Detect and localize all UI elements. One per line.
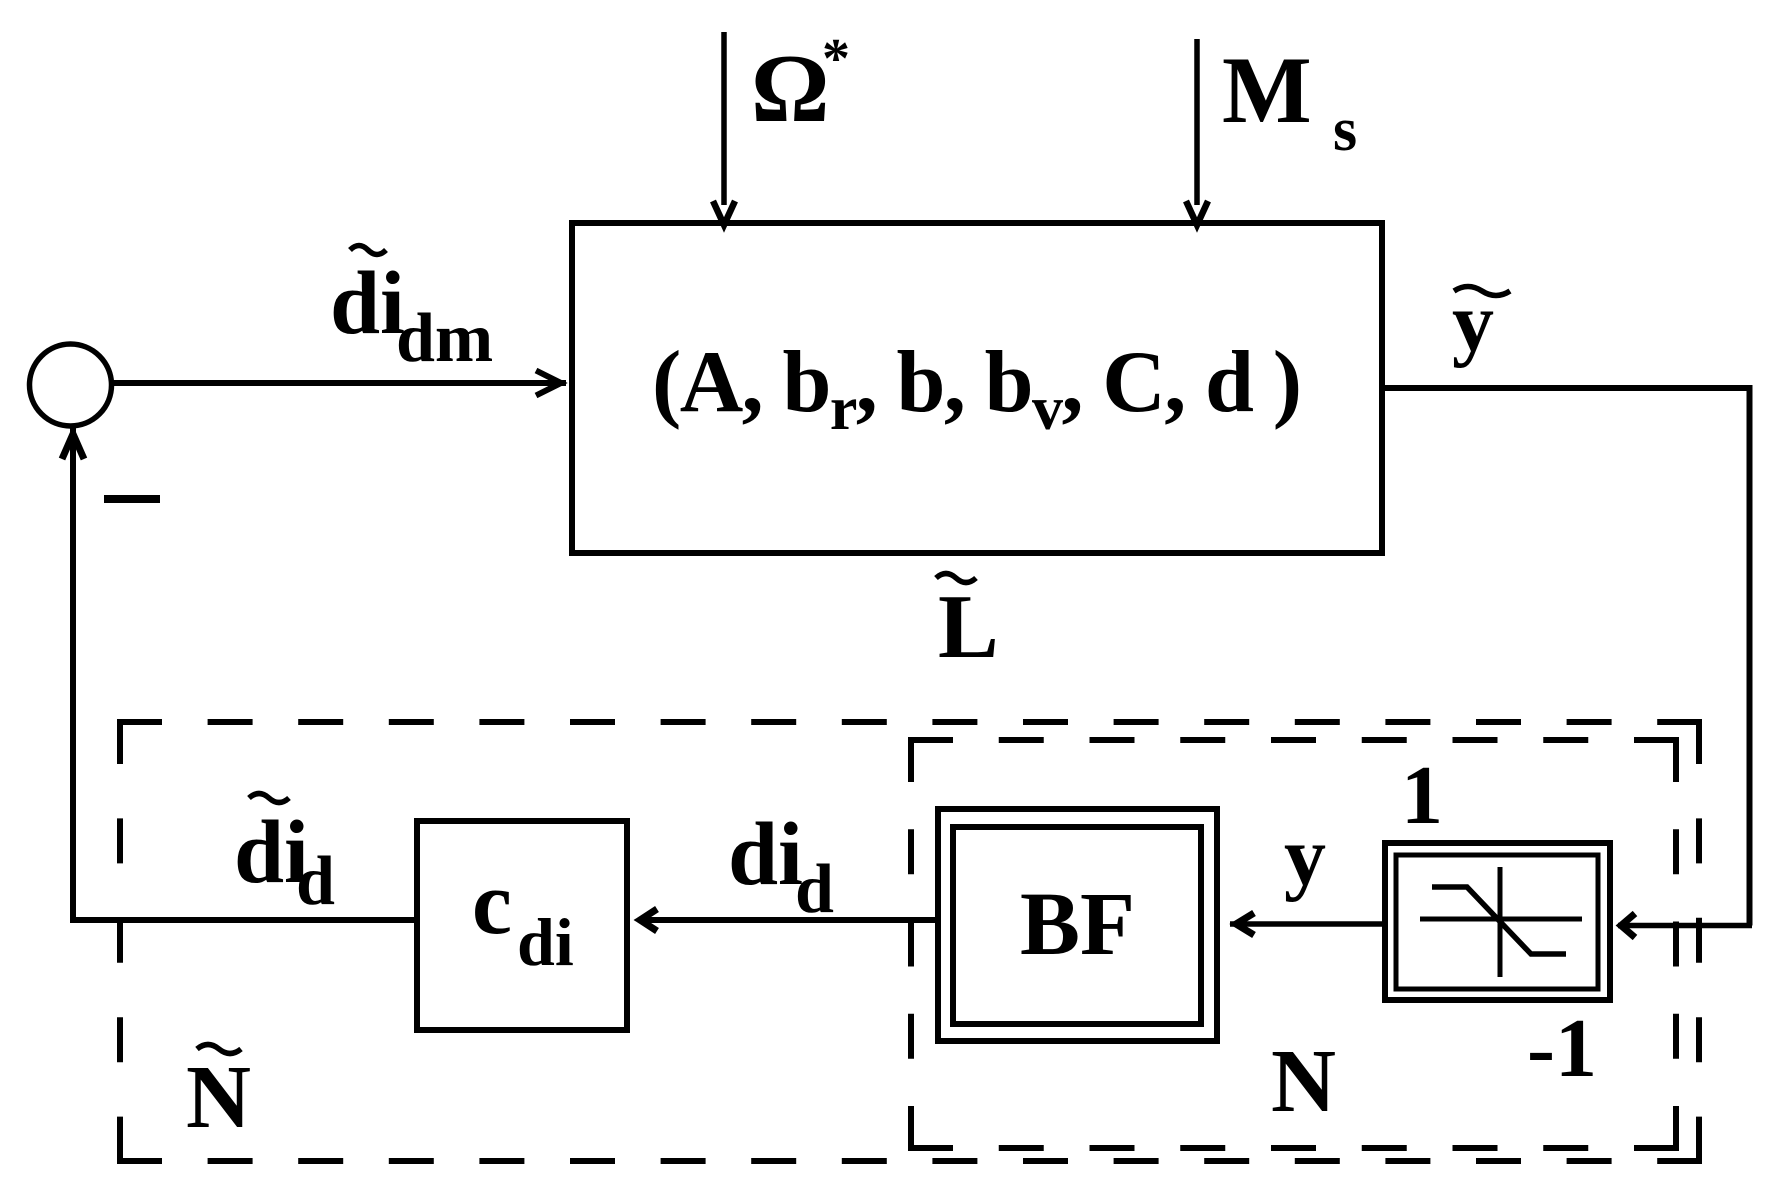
svg-text:di: di	[517, 904, 574, 980]
svg-text:1: 1	[1401, 749, 1443, 842]
svg-text:s: s	[1333, 96, 1357, 164]
svg-text:y: y	[1284, 810, 1326, 903]
svg-text:*: *	[822, 28, 850, 90]
svg-text:Ω: Ω	[751, 35, 829, 143]
svg-text:N: N	[1271, 1032, 1336, 1131]
svg-text:di: di	[728, 805, 803, 904]
svg-text:(A, br, b, bv, C, d ): (A, br, b, bv, C, d )	[652, 334, 1300, 443]
svg-text:d: d	[795, 851, 834, 928]
svg-text:-1: -1	[1527, 1002, 1597, 1095]
svg-text:M: M	[1222, 37, 1312, 143]
svg-text:d: d	[296, 843, 335, 920]
svg-text:di: di	[330, 254, 405, 353]
svg-text:N: N	[186, 1048, 251, 1147]
svg-text:BF: BF	[1020, 875, 1135, 974]
svg-text:c: c	[472, 854, 512, 953]
svg-text:dm: dm	[396, 300, 493, 377]
svg-text:L: L	[938, 576, 999, 677]
